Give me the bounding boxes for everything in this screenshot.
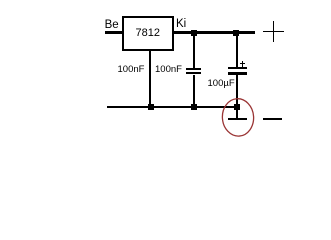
junction dot node D — [191, 104, 197, 110]
label Ki — [176, 19, 186, 31]
wire C3 lower lead — [236, 75, 238, 106]
capacitor C3 100uF plates — [228, 67, 247, 69]
label C3 value 100uF — [208, 79, 235, 89]
wire input — [105, 31, 123, 33]
wire output — [174, 31, 255, 33]
plus output terminal — [263, 31, 284, 33]
junction dot node E — [234, 104, 240, 110]
wire gnd pin of U1 — [149, 51, 151, 107]
plus mark of C3 — [240, 63, 246, 64]
wire C2 lower lead — [193, 75, 195, 107]
red circle highlight — [219, 95, 259, 140]
junction dot node C — [148, 104, 154, 110]
ground stub wire — [236, 108, 238, 118]
capacitor C2 100nF plates — [186, 68, 200, 70]
label C1 value 100nF — [118, 65, 145, 75]
wire C2 upper lead — [193, 33, 195, 68]
label C2 value 100nF — [155, 65, 182, 75]
ground bar — [228, 118, 248, 120]
junction dot node B — [233, 30, 239, 36]
regulator U1 box 7812 — [122, 16, 174, 51]
bottom rail wire — [107, 106, 237, 108]
minus output terminal — [263, 118, 282, 120]
label Be — [105, 20, 119, 32]
junction dot node A — [191, 30, 197, 36]
wire C3 upper lead — [236, 33, 238, 67]
